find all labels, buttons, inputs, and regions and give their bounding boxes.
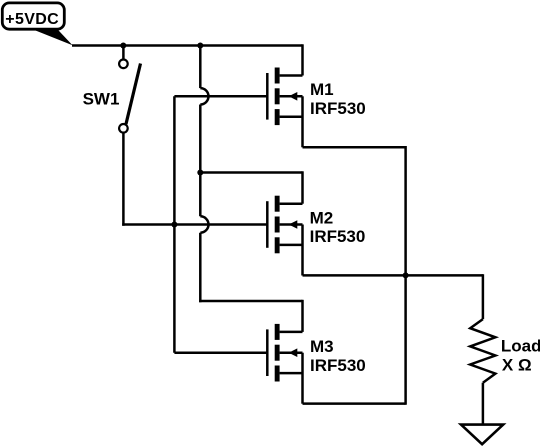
svg-text:M2: M2 [310,208,334,227]
svg-text:IRF530: IRF530 [310,356,366,375]
svg-text:IRF530: IRF530 [310,99,366,118]
svg-text:SW1: SW1 [83,90,120,109]
svg-text:Load: Load [501,337,540,356]
svg-text:+5VDC: +5VDC [5,11,59,28]
svg-text:X Ω: X Ω [502,355,532,374]
svg-text:IRF530: IRF530 [310,227,366,246]
svg-text:M3: M3 [310,337,334,356]
svg-text:M1: M1 [310,80,334,99]
